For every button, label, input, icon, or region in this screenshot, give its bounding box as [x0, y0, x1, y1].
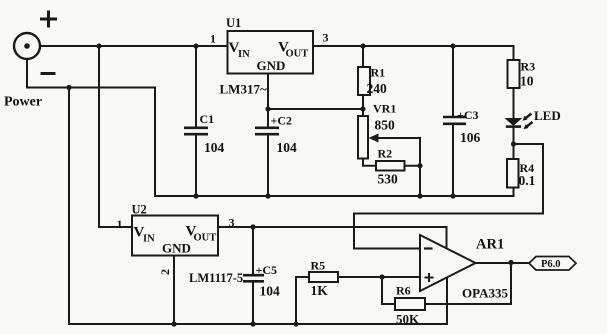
- svg-text:Power: Power: [4, 95, 42, 110]
- svg-text:GND: GND: [257, 58, 286, 73]
- svg-text:OUT: OUT: [286, 49, 309, 60]
- svg-text:50K: 50K: [396, 312, 420, 327]
- svg-text:OPA335: OPA335: [462, 286, 508, 301]
- svg-text:VR1: VR1: [373, 102, 396, 116]
- svg-text:1K: 1K: [311, 283, 329, 298]
- svg-text:104: 104: [260, 284, 281, 299]
- svg-text:+C2: +C2: [271, 114, 293, 128]
- svg-text:LM1117-5: LM1117-5: [189, 271, 243, 285]
- svg-text:850: 850: [375, 118, 396, 133]
- svg-text:106: 106: [460, 130, 481, 145]
- svg-text:AR1: AR1: [476, 237, 504, 253]
- svg-text:LED: LED: [534, 108, 561, 123]
- svg-text:3: 3: [229, 216, 235, 230]
- svg-text:R6: R6: [396, 284, 411, 298]
- svg-text:3: 3: [323, 31, 329, 45]
- svg-text:1: 1: [210, 32, 216, 46]
- svg-text:U2: U2: [132, 203, 147, 217]
- svg-text:C1: C1: [200, 112, 215, 126]
- svg-text:IN: IN: [143, 234, 155, 245]
- svg-text:R5: R5: [311, 259, 326, 273]
- svg-text:+C3: +C3: [457, 108, 479, 122]
- svg-text:OUT: OUT: [194, 233, 217, 244]
- svg-text:0.1: 0.1: [519, 173, 536, 188]
- svg-text:R3: R3: [521, 60, 536, 74]
- svg-text:R2: R2: [378, 147, 393, 161]
- svg-text:10: 10: [520, 74, 534, 89]
- svg-text:IN: IN: [238, 49, 250, 60]
- svg-text:U1: U1: [226, 16, 241, 30]
- svg-text:530: 530: [378, 172, 399, 187]
- svg-text:GND: GND: [162, 241, 191, 256]
- svg-text:R1: R1: [371, 66, 386, 80]
- svg-text:104: 104: [277, 140, 298, 155]
- svg-text:P6.0: P6.0: [541, 259, 561, 270]
- svg-text:LM317~: LM317~: [220, 82, 267, 97]
- svg-text:+C5: +C5: [256, 263, 278, 277]
- svg-text:2: 2: [158, 269, 172, 275]
- svg-text:1: 1: [117, 217, 123, 231]
- svg-text:240: 240: [367, 81, 388, 96]
- svg-text:104: 104: [204, 140, 225, 155]
